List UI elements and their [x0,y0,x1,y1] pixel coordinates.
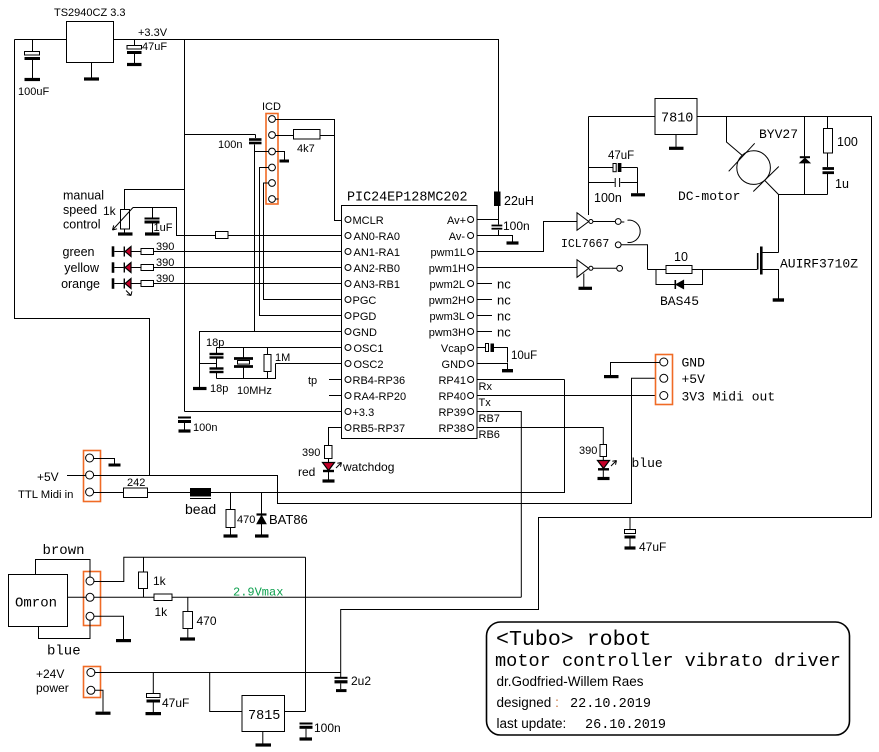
wire ICD3 ground right [275,152,284,161]
svg-text:TTL Midi in: TTL Midi in [18,489,73,501]
svg-text:pwm2H: pwm2H [429,295,466,307]
svg-text:3V3 Midi out: 3V3 Midi out [682,390,776,405]
svg-text:RB7: RB7 [479,413,500,425]
resistor R7 390 [141,249,154,255]
inductor L1 22uH [494,192,501,207]
svg-text:nc: nc [497,293,511,308]
resistor R9 390 [141,281,154,287]
connector J2 TTL midi [84,451,101,502]
svg-text:blue: blue [47,644,81,660]
svg-text:ICL7667: ICL7667 [561,238,609,251]
capacitor C14 47uF [152,673,154,694]
resistor R13 470 [226,510,235,528]
svg-text:red: red [298,465,315,479]
svg-text:1M: 1M [275,352,290,364]
pin ICD-4 [269,164,276,171]
svg-text:pwm3L: pwm3L [430,311,465,323]
svg-text:100: 100 [837,135,858,149]
svg-text:470: 470 [237,514,255,526]
LED D1 red watchdog [328,459,330,463]
svg-text:<Tubo> robot: <Tubo> robot [496,628,652,652]
svg-text:TS2940CZ 3.3: TS2940CZ 3.3 [54,7,126,19]
wire GND pin8 [200,332,343,388]
wire output to RB7 [172,596,521,598]
svg-text:390: 390 [579,445,597,457]
wire jumper to gate resistor [621,245,647,270]
wire +3.3V branch x184 [185,40,256,412]
pin pwm3H [468,329,474,335]
ground C13 [625,546,636,549]
svg-text:manual: manual [63,189,104,203]
wire pwm2H nc stub [477,299,492,301]
svg-text:100n: 100n [594,191,622,205]
svg-text:RB6: RB6 [479,429,500,441]
diode D7 BAT86 [261,493,263,515]
svg-text:390: 390 [156,241,174,253]
pin GND right [468,361,474,367]
svg-text:100n: 100n [314,721,341,735]
wire Av- to gnd [477,236,513,242]
capacitor C6 100n (+3.3) [178,417,191,419]
svg-text:pwm1L: pwm1L [431,247,466,259]
pin J4-1 [86,577,94,585]
svg-text:PGC: PGC [353,295,377,307]
regulator U2 TS2940CZ 3.3 [67,22,114,63]
ground J3-1 [604,375,619,378]
pin ICD-5 [269,180,276,187]
crystal X1 10MHz [243,348,245,359]
wire ICD4 to PGD [260,168,343,316]
resistor R15 1k pullup [143,557,145,572]
pin pwm1H [468,265,474,271]
svg-text:7810: 7810 [661,112,693,127]
svg-text:RP40: RP40 [438,391,466,403]
svg-text:10MHz: 10MHz [237,385,272,397]
resistor R12 242 [124,488,148,498]
ground C14 [146,712,162,715]
resistor R4 390 watchdog [325,446,333,459]
pin ICD-2 [269,132,276,139]
wire ICD6 stub [275,198,278,200]
svg-text:4k7: 4k7 [297,143,315,155]
svg-text:Vcap: Vcap [441,343,466,355]
svg-text:power: power [36,681,69,695]
wire J5-2 gnd [94,690,103,711]
svg-text:1k: 1k [155,605,169,619]
wire crystal bottom rail [217,364,276,379]
svg-text:RB4-RP36: RB4-RP36 [353,375,406,387]
pin MCLR [345,217,351,223]
wire motor bottom rail [779,194,828,196]
wire blue [39,620,91,639]
pin ICD-6 [269,196,276,203]
pin out B [617,265,623,271]
wire inverterB out to R11 [648,269,667,271]
svg-text:motor controller vibrato drive: motor controller vibrato driver [495,651,841,672]
svg-text:10: 10 [674,250,688,264]
svg-text:pwm3H: pwm3H [429,327,466,339]
ground J5-2 [96,712,111,715]
svg-text:BYV27: BYV27 [759,127,798,142]
capacitor C2 47uF [134,40,136,46]
svg-text:last update:: last update: [497,716,567,731]
wire +24V top rail [697,117,872,518]
pin J5-1 [87,669,95,677]
svg-text:GND: GND [353,327,378,339]
pin AN1-RA1 [345,249,351,255]
svg-text:47uF: 47uF [639,540,666,554]
svg-text:390: 390 [302,447,320,459]
jumper arc [621,220,640,242]
svg-text:nc: nc [497,325,511,340]
wire tp to RB4 [329,379,342,381]
svg-text:7815: 7815 [248,709,280,724]
ground crystal [193,387,207,390]
svg-text:AUIRF3710Z: AUIRF3710Z [780,257,858,272]
svg-text:GND: GND [682,356,706,371]
svg-text:bead: bead [185,501,216,517]
svg-text:100n: 100n [193,422,217,434]
svg-text:orange: orange [61,277,100,291]
svg-text:Av-: Av- [449,231,466,243]
arrow blue led [611,461,617,467]
svg-text:26.10.2019: 26.10.2019 [585,718,666,733]
svg-text:470: 470 [197,614,217,628]
svg-text:390: 390 [156,273,174,285]
svg-text:Tx: Tx [479,397,492,409]
pin RB4-RP36 [345,377,351,383]
svg-text:22.10.2019: 22.10.2019 [570,697,651,712]
svg-text:designed :: designed : [497,695,559,710]
svg-text:+3.3V: +3.3V [138,27,168,39]
svg-text:+3.3: +3.3 [353,407,375,419]
svg-text:PIC24EP128MC202: PIC24EP128MC202 [347,191,468,206]
arrow watchdog led [336,463,342,469]
pin J5-2 [87,686,95,694]
LED D4 orange [112,278,115,289]
ground mosfet source [773,298,784,301]
pin pwm3L [468,313,474,319]
regulator U4 7810 [655,99,697,135]
wire 4k7 to MCLR net [320,135,335,137]
svg-text:47uF: 47uF [142,41,167,53]
svg-text:18p: 18p [210,383,228,395]
pin J2-1 [86,454,94,462]
resistor R10 100 [827,117,829,129]
wire OSC1 [217,347,343,349]
wire RP41 Rx [477,379,565,381]
wire 18p midpoint to gnd [200,363,217,365]
wire 24V feed right side [341,518,872,678]
sensor U5 Omron [9,575,68,627]
pin OSC1 [345,345,351,351]
wire ICD2 to 4k7 [275,135,293,137]
wire pot top to +3.3 [125,190,185,210]
LED D3 yellow [112,262,115,273]
ground R17 [180,637,195,640]
resistor R16 1k series [154,594,172,601]
wire R11 to gate [692,269,757,271]
wire RA4 stub [329,395,342,397]
wire 7810 output [589,116,656,118]
wire R6 to AN0 [228,235,342,237]
svg-text:RB5-RP37: RB5-RP37 [353,423,406,435]
ground 7810 [675,135,677,148]
diode D5 BYV27 [804,117,806,157]
svg-text:ICD: ICD [262,101,281,113]
ground ICL caps [637,168,639,194]
wire TTL midi line to Rx riser [211,380,565,493]
ground watchdog led [323,479,335,482]
ground blue led [598,477,610,480]
motor brush slash NW [729,143,755,171]
ground R13 [224,534,238,537]
LED D2 green [112,246,115,256]
svg-text:RP39: RP39 [438,407,466,419]
capacitor C10 47uF [589,167,613,169]
wire pwm1L to inverter A [477,222,577,252]
pin OSC2 [345,361,351,367]
ground J4-3 [116,639,131,642]
svg-text:nc: nc [497,277,511,292]
pin +3.3 [345,409,351,415]
diode D6 BAS45 parallel [656,270,703,285]
svg-text:OSC1: OSC1 [354,343,384,355]
regulator U6 7815 [242,696,285,732]
svg-text:+5V: +5V [37,470,59,484]
pin pwm1L [468,249,474,255]
wire RP38 RB6 to blue led [477,428,603,445]
svg-text:brown: brown [43,543,85,559]
pin J3-3 [660,392,668,400]
ground pot [124,229,126,233]
wire R12 to bead [148,492,191,494]
ground C16 [336,689,347,692]
svg-text:BAT86: BAT86 [269,512,308,527]
wire RP39 RB7 [477,412,521,598]
svg-text:BAS45: BAS45 [660,294,699,309]
pin pwm2H [468,297,474,303]
wire pwm3L nc stub [477,315,492,317]
wire to R13 470 [230,493,232,510]
capacitor C3 100n (ICD) [255,135,257,139]
pin PGC [345,297,351,303]
pin RB5-RP37 [345,425,351,431]
pin RP39 [468,409,474,415]
title box [487,622,850,735]
svg-text:18p: 18p [206,337,224,349]
svg-text:pwm2L: pwm2L [430,279,465,291]
svg-text:47uF: 47uF [608,150,634,162]
IC U1 PIC24EP128MC202 [342,206,478,439]
svg-text:GND: GND [442,359,467,371]
svg-text:Rx: Rx [479,381,493,393]
svg-text:22uH: 22uH [504,194,534,208]
ferrite bead FB1 [190,488,211,497]
wire RP40 Tx to midi out [477,395,660,397]
svg-text:green: green [63,245,95,259]
pin AN0-RA0 [345,233,351,239]
capacitor C5 18p bottom [210,367,224,369]
svg-text:1k: 1k [103,204,117,218]
wire motor branch [727,117,744,157]
svg-text:OSC2: OSC2 [354,359,384,371]
ground Av- [507,241,519,244]
svg-text:AN1-RA1: AN1-RA1 [354,247,400,259]
capacitor C12 1u [823,167,835,170]
pin Vcap [468,345,474,351]
connector J3 midi out [656,355,673,405]
svg-text:100n: 100n [218,139,242,151]
resistor R8 390 [141,265,154,271]
ground regulator [91,63,93,79]
pin ICD-3 [269,148,276,155]
wire omron out [68,596,87,598]
svg-text:RA4-RP20: RA4-RP20 [354,391,407,403]
svg-text:MCLR: MCLR [353,215,384,227]
resistor R3 1M [267,348,269,355]
resistor R14 390 blue [600,445,607,457]
wire Av+ [477,219,499,221]
pin J2-3 [86,488,94,496]
svg-text:1k: 1k [153,574,167,588]
wire ICD5 to PGC [264,183,343,300]
connector J5 24V [84,667,101,698]
svg-text:Omron: Omron [15,596,57,612]
motor M1 DC-motor [737,151,771,185]
pin J4-3 [86,612,94,620]
wire +5V stub left [67,475,86,477]
capacitor C9 10uF (Vcap) [477,347,485,349]
ground J2-1 [109,464,121,467]
ground 1uF [145,232,160,235]
capacitor C4 18p top [216,348,218,354]
pin in B jumper [615,242,621,248]
svg-text:yellow: yellow [64,261,100,275]
pin PGD [345,313,351,319]
pin AN3-RB1 [345,281,351,287]
ground C15 [300,737,313,740]
pin out A [615,219,621,225]
ground D7 [255,534,269,537]
wire J4-2 output [93,596,154,598]
wire J3-1 to gnd [611,363,661,376]
svg-text:Av+: Av+ [447,215,466,227]
ground chip right [502,369,513,372]
svg-text:pwm1H: pwm1H [429,263,466,275]
wire J4-1 to 15V [93,557,305,581]
pin J4-2 [86,593,94,601]
svg-text:tp: tp [308,375,317,387]
pin J3-1 [660,358,668,366]
wire +5V distribution [93,378,660,503]
svg-text:watchdog: watchdog [342,460,394,474]
wire ICD1 to MCLR [275,120,342,221]
capacitor C8 100n (Av) [498,220,500,225]
pin RP41 [468,377,474,383]
svg-text:10uF: 10uF [511,350,537,362]
wire J4-3 to gnd [93,616,123,639]
capacitor C13 47uF mid [629,518,631,530]
LED D8 blue [602,457,604,461]
svg-text:speed: speed [63,203,97,217]
wire 7815 out 15V riser [285,557,306,711]
pin RP40 [468,393,474,399]
svg-text:AN2-RB0: AN2-RB0 [354,263,400,275]
svg-text:390: 390 [156,257,174,269]
wire pot wiper to AN0 [133,208,216,236]
wire GND right pin [477,364,508,370]
connector J1 ICD [266,114,278,205]
wire J2-1 to gnd [93,459,115,464]
ground inverter B [583,274,585,288]
pin pwm2L [468,281,474,287]
svg-text:RP38: RP38 [438,423,466,435]
pin J2-2 [86,471,94,479]
pin Av+ [468,217,474,223]
capacitor C16 2u2 [335,677,348,679]
pin AN2-RB0 [345,265,351,271]
resistor R17 470 [187,597,189,611]
svg-text:100n: 100n [503,219,530,233]
capacitor C7 1uF [152,208,154,218]
wire ICD3 left to gnd net [255,151,269,153]
pin GND left [345,329,351,335]
svg-text:blue: blue [632,456,663,471]
svg-text:AN0-RA0: AN0-RA0 [354,231,400,243]
wire +5V input rail left [15,40,150,476]
pin Av- [468,233,474,239]
inverter U3A ICL7667 [577,213,589,231]
wire brown [36,560,91,578]
wire 24V to 7815 [210,673,242,712]
ground 100n +3.3 [179,429,191,432]
ICL7667 supply wire [588,117,590,216]
svg-text:1u: 1u [835,177,849,191]
svg-text:2u2: 2u2 [351,674,371,688]
capacitor C11 100n [589,178,638,187]
svg-text:242: 242 [127,477,145,489]
pin RA4-RP20 [345,393,351,399]
svg-text:47uF: 47uF [162,696,189,710]
wire OSC2 [276,363,343,365]
wire RB5 to watchdog [329,428,343,446]
pin RP38 [468,425,474,431]
svg-text:2.9Vmax: 2.9Vmax [233,586,283,600]
inverter U3B ICL7667 [577,260,589,278]
wire J2-3 to R12 [93,492,124,494]
wire +24V rail [94,672,340,674]
svg-text:+5V: +5V [682,372,706,387]
transistor Q1 AUIRF3710Z [757,253,759,270]
svg-text:+24V: +24V [36,667,64,681]
svg-text:100uF: 100uF [18,86,49,98]
svg-text:nc: nc [497,309,511,324]
connector J4 omron [84,572,101,626]
potentiometer R5 1k [121,210,130,230]
wire pwm2L nc stub [477,283,492,285]
pin ICD-1 [269,116,276,123]
svg-text:AN3-RB1: AN3-RB1 [354,279,400,291]
resistor R2 4k7 [294,130,321,140]
svg-text:control: control [63,218,101,232]
wire pwm1H to inverter B [477,267,577,269]
capacitor C15 100n [300,723,313,725]
ground 7815 [262,732,264,744]
svg-text:1uF: 1uF [154,222,173,234]
resistor R6 (AN0 series) [216,232,229,239]
svg-text:dr.Godfried-Willem Raes: dr.Godfried-Willem Raes [497,674,644,689]
